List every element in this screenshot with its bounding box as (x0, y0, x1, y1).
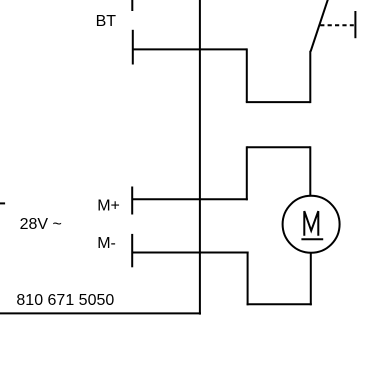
wire: right vertical of upper loop to switch pivot (309, 51, 311, 103)
terminal BT: upper stub from top edge (131, 0, 133, 11)
motor M: circle body (283, 196, 340, 253)
switch: lever arm (311, 0, 329, 52)
wire: left vertical of lower loop down to M+ wire (246, 146, 248, 200)
motor M: underline (DC marking) (301, 238, 323, 240)
wire: main vertical bus (199, 0, 201, 315)
svg-text:M-: M- (97, 235, 116, 252)
wire: top horizontal of lower loop (247, 146, 310, 148)
wire: bottom horizontal of upper loop (246, 101, 310, 103)
svg-text:M+: M+ (97, 197, 120, 214)
wire: left vertical of motor return loop (247, 252, 249, 306)
motor M: letter M strokes (304, 211, 318, 236)
terminal M+: tick mark (131, 187, 133, 215)
switch: actuator end bar (354, 11, 356, 38)
wire: bottom horizontal feed to bus (0, 312, 201, 314)
svg-text:810 671 5050: 810 671 5050 (16, 292, 114, 309)
wire: M+ terminal to lower loop (crosses bus) (133, 198, 248, 200)
wire: M- terminal to motor return loop (crosses bus) (133, 252, 249, 254)
wire: motor bottom lead (310, 253, 312, 306)
wire: bottom horizontal of motor return loop (247, 303, 312, 305)
terminal BT: tick mark (132, 30, 134, 65)
wire: supply stub at left edge (0, 202, 5, 204)
svg-text:BT: BT (96, 13, 117, 30)
terminal M-: tick mark (131, 234, 133, 267)
wire: left vertical of upper loop (246, 48, 248, 102)
wire: right vertical of lower loop down to motor (309, 146, 311, 196)
wire: BT terminal to relay contact (crosses bus) (133, 48, 247, 50)
switch: actuator dashed link (320, 24, 354, 26)
svg-text:28V ~: 28V ~ (20, 216, 62, 233)
